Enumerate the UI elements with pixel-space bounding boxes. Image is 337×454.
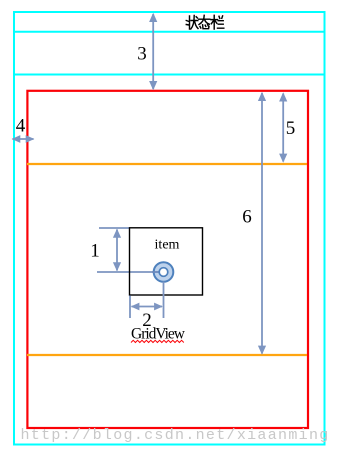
- dimension arrow 2 (half item width): [131, 303, 163, 311]
- status bar text 状态栏 (drawn glyphs): [186, 15, 224, 29]
- dimension arrow 4 (left margin): [12, 135, 35, 143]
- title bar bottom line: [13, 74, 326, 76]
- dimension arrow 1 (item top to circle): [113, 229, 121, 272]
- anchor circle outer: [154, 262, 174, 282]
- tick line into donut: [152, 271, 160, 273]
- dimension arrow 5 (top padding): [279, 92, 287, 163]
- svg-text:3: 3: [137, 44, 147, 65]
- orange divider lower: [27, 354, 307, 356]
- extension line left below item: [129, 296, 131, 319]
- item box: [130, 228, 203, 295]
- anchor circle inner: [159, 268, 168, 277]
- red content frame: [27, 91, 308, 428]
- status bar bottom line: [13, 31, 326, 33]
- GridView red squiggle underline: [131, 340, 184, 342]
- svg-text:item: item: [155, 238, 180, 253]
- tick line top of item: [99, 227, 130, 229]
- svg-text:http://blog.csdn.net/xiaanming: http://blog.csdn.net/xiaanming: [21, 427, 330, 444]
- extension line from circle down: [163, 282, 165, 319]
- tick line through circle center: [97, 271, 152, 273]
- svg-text:5: 5: [286, 118, 296, 139]
- dimension arrow 6 (content height): [258, 92, 266, 355]
- svg-text:4: 4: [16, 116, 26, 137]
- dimension arrow 3 (status area height): [149, 13, 157, 90]
- svg-text:6: 6: [242, 207, 252, 228]
- svg-text:1: 1: [90, 241, 100, 262]
- orange divider upper: [27, 163, 307, 165]
